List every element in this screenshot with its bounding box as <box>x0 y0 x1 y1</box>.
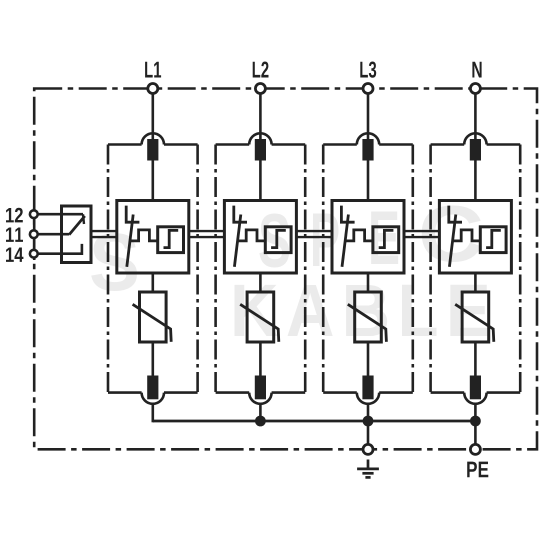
module frame L3 (dash-dot sides) <box>322 145 325 393</box>
contact 12 fixed tick <box>83 214 84 224</box>
trigger step symbol N <box>486 230 501 247</box>
terminal circle 14 <box>30 250 38 258</box>
wire varistor to bottom bar N <box>474 342 477 376</box>
trigger pulse line L2 <box>238 230 265 241</box>
wire 14 to contact stub <box>38 244 82 254</box>
terminal circle L3 <box>363 84 373 94</box>
PE bus wire <box>153 420 476 423</box>
wire L2 terminal to module <box>259 94 262 141</box>
plug-in contact bottom L2 (black bar and arc) <box>255 376 266 400</box>
enclosure border (dash-dot) <box>34 89 537 450</box>
label terminal 11 <box>6 228 23 242</box>
junction node N/bus <box>470 416 481 427</box>
spark gap unit box L2 <box>224 201 296 274</box>
terminal circle L1 <box>148 84 158 94</box>
wire L2 to PE bus <box>259 404 262 423</box>
varistor L1 diagonal <box>133 304 172 342</box>
wire spark gap to varistor L2 <box>259 273 262 292</box>
wire L1 to PE bus <box>152 404 155 423</box>
label terminal 12 <box>6 208 23 223</box>
junction node L2/bus <box>255 416 266 427</box>
wire spark gap to varistor N <box>474 273 477 292</box>
varistor L2 body <box>247 292 274 342</box>
trigger pulse line N <box>453 230 481 241</box>
trigger device box N <box>480 227 506 253</box>
wire top bar to spark gap L1 <box>152 161 155 201</box>
plug-in contact bottom L3 (black bar and arc) <box>362 376 373 400</box>
plug-in contact top L1 (arc and black bar) <box>142 133 164 144</box>
PE terminal circle <box>470 444 480 454</box>
border segment at signalling terminals <box>33 208 36 260</box>
varistor L1 body <box>140 292 167 342</box>
terminal circle 11 <box>30 230 38 238</box>
module frame N (dash-dot sides) <box>429 145 432 393</box>
spark gap unit box L1 <box>117 201 189 274</box>
wire N terminal to module <box>474 94 477 141</box>
wire varistor to bottom bar L1 <box>152 342 155 376</box>
label N <box>472 62 481 78</box>
label PE <box>467 462 488 478</box>
wire L3 terminal to module <box>367 94 370 141</box>
spark gap contact stub L1 <box>126 206 139 223</box>
plug-in contact top N (arc and black bar) <box>464 133 486 144</box>
mechanical link double line (L1 to L2) <box>189 230 225 232</box>
spark gap switch arm L1 <box>127 215 133 267</box>
trigger step symbol L2 <box>271 230 286 247</box>
earth terminal circle <box>363 444 373 454</box>
label L2 <box>253 62 269 78</box>
spark gap switch arm L2 <box>234 215 240 267</box>
remote signalling contact box K1 <box>62 206 92 263</box>
wire L3 to PE bus <box>367 404 370 423</box>
mechanical link double line (L3 to N) <box>404 230 439 232</box>
trigger step symbol L1 <box>164 230 179 247</box>
svg-text:KABLE: KABLE <box>230 269 498 352</box>
varistor N diagonal <box>455 304 494 342</box>
varistor N body <box>462 292 489 342</box>
label L1 <box>145 62 161 78</box>
earth ground symbol <box>357 460 379 478</box>
trigger device box L2 <box>265 227 291 253</box>
trigger device box L1 <box>158 227 184 253</box>
wire top bar to spark gap L2 <box>259 161 262 201</box>
wire bus to earth terminal <box>367 421 370 444</box>
plug-in contact bottom L1 (black bar and arc) <box>147 376 158 400</box>
spark gap switch arm N <box>449 215 455 267</box>
plug-in contact top L2 (arc and black bar) <box>249 133 271 144</box>
plug-in contact top L3 (arc and black bar) <box>357 133 379 144</box>
mechanical link double line (L2 to L3) <box>296 230 332 232</box>
label L3 <box>360 62 376 78</box>
spark gap unit box N <box>439 201 511 274</box>
spark gap contact stub N <box>449 206 462 223</box>
spark gap switch arm L3 <box>342 215 348 267</box>
trigger step symbol L3 <box>379 230 394 247</box>
module frame L2 (dash-dot sides) <box>214 145 217 393</box>
trigger pulse line L3 <box>345 230 373 241</box>
wire N to PE bus <box>474 404 477 423</box>
varistor L2 diagonal <box>240 304 279 342</box>
varistor L3 body <box>355 292 382 342</box>
module frame L1 (dash-dot sides) <box>107 145 110 393</box>
spark gap unit box L3 <box>332 201 404 274</box>
wire top bar to spark gap L3 <box>367 161 370 201</box>
terminal circle L2 <box>255 84 265 94</box>
trigger pulse line L1 <box>130 230 158 241</box>
wire L1 terminal to module <box>152 94 155 141</box>
wire top bar to spark gap N <box>474 161 477 201</box>
wire 11 to contact pivot <box>38 233 70 236</box>
wire 12 to contact <box>38 213 84 216</box>
changeover contact arm 11-12 <box>69 216 85 235</box>
spark gap contact stub L3 <box>341 206 354 223</box>
terminal circle N <box>470 84 480 94</box>
trigger device box L3 <box>373 227 399 253</box>
mechanical link double line (contact to L1 module) <box>91 230 117 232</box>
wire varistor to bottom bar L2 <box>259 342 262 376</box>
label terminal 14 <box>6 248 23 262</box>
wire spark gap to varistor L3 <box>367 273 370 292</box>
spark gap contact stub L2 <box>234 206 247 223</box>
wire varistor to bottom bar L3 <box>367 342 370 376</box>
wire bus to PE terminal <box>474 421 477 444</box>
varistor L3 diagonal <box>348 304 387 342</box>
junction node L3/bus <box>363 416 374 427</box>
plug-in contact bottom N (black bar and arc) <box>470 376 481 400</box>
terminal circle 12 <box>30 210 38 218</box>
wire spark gap to varistor L1 <box>152 273 155 292</box>
